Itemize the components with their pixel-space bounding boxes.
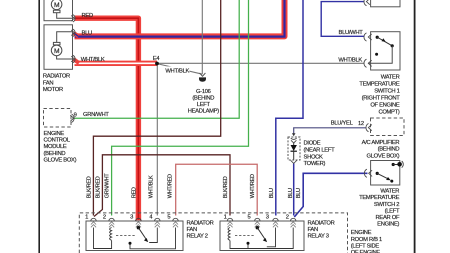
svg-text:WHT/RED: WHT/RED bbox=[250, 174, 256, 198]
water temp switch 2 internals bbox=[376, 172, 379, 175]
svg-text:A/C AMPLIFIER: A/C AMPLIFIER bbox=[362, 140, 400, 146]
A/C amplifier pin 12 connector bbox=[366, 124, 372, 132]
wire WHT/BLK connector stub bbox=[74, 59, 80, 63]
wire BLK/RED B: relay2 pin1 diagonal, up, right, down to relay3 pin1 bbox=[94, 155, 230, 217]
svg-text:5: 5 bbox=[167, 214, 170, 220]
wire WHT/BLK highlight band: motor2 to node E4 bbox=[75, 61, 158, 66]
relay K2 switch pivot (pin3) bbox=[137, 226, 140, 229]
svg-text:MOTOR: MOTOR bbox=[43, 87, 63, 93]
ECM dashed box bbox=[44, 109, 72, 128]
relay K2 coil-switch mechanical link bbox=[116, 234, 136, 236]
motor box connectors bbox=[71, 15, 75, 63]
wire GRN/WHT: ECM pin9 right then up to top edge bbox=[73, 0, 240, 118]
svg-text:RADIATOR: RADIATOR bbox=[308, 221, 335, 227]
switch2 connector bbox=[364, 169, 372, 177]
wire from top edge down to ground G-106 bbox=[201, 0, 203, 74]
wire BLU core bbox=[75, 0, 285, 37]
svg-text:5: 5 bbox=[247, 214, 250, 220]
svg-text:BLK/RED: BLK/RED bbox=[87, 176, 93, 198]
label WHT/BLK ground pointer bbox=[164, 66, 190, 73]
svg-text:3: 3 bbox=[130, 214, 133, 220]
relay K2 internal wire pin5 to contact bbox=[130, 228, 176, 249]
water temp switch 1 internals bbox=[376, 36, 379, 39]
wire WHT/BLK pointer: E4 to ground G-106 bbox=[157, 64, 202, 75]
svg-text:RELAY 2: RELAY 2 bbox=[187, 233, 208, 239]
diode connectors bbox=[292, 133, 296, 136]
switch1 connectors bbox=[364, 33, 372, 68]
relay K2 internal wire pin4 to contact bbox=[149, 228, 157, 243]
svg-text:(BEHIND: (BEHIND bbox=[378, 147, 400, 153]
svg-text:G-106: G-106 bbox=[196, 89, 211, 95]
svg-text:HEADLAMP): HEADLAMP) bbox=[188, 109, 219, 115]
svg-text:TOWER): TOWER) bbox=[304, 161, 326, 167]
svg-text:1: 1 bbox=[85, 214, 88, 220]
svg-text:BLU: BLU bbox=[296, 188, 302, 198]
relay K3 contact dot bbox=[247, 242, 250, 245]
svg-text:WHT/RED: WHT/RED bbox=[168, 174, 174, 198]
wire BLK/RED A: relay2 pin1 up, right, up to top edge bbox=[93, 0, 220, 216]
svg-text:12: 12 bbox=[358, 121, 364, 127]
svg-text:GLOVE BOX): GLOVE BOX) bbox=[367, 153, 400, 159]
relay K2 switch arm bbox=[138, 228, 146, 239]
svg-text:ENGINE: ENGINE bbox=[351, 230, 372, 236]
border right bbox=[414, 0, 416, 253]
svg-text:BLU: BLU bbox=[82, 30, 92, 36]
water temperature switch 2 box bbox=[371, 161, 400, 186]
relay K3 contact stub bbox=[247, 244, 249, 248]
svg-text:GLOVE BOX): GLOVE BOX) bbox=[44, 157, 77, 163]
svg-text:WHT/BLK: WHT/BLK bbox=[149, 175, 155, 198]
wire WHT/RED: relay2 pin5 up, right, down to relay3 pin5 bbox=[176, 164, 258, 215]
wire BLU: water temp switch2 left, down, diagonal to relay3 pin2 bbox=[294, 173, 367, 217]
svg-text:BLU: BLU bbox=[269, 188, 275, 198]
svg-text:2: 2 bbox=[103, 214, 106, 220]
svg-text:FAN: FAN bbox=[43, 80, 53, 86]
motor M1 symbol bbox=[51, 0, 72, 18]
wire GRN/WHT: from top edge down, left, down to relay2 pin2 bbox=[112, 0, 249, 216]
top cut-off component box bbox=[371, 0, 400, 7]
wire RED core bbox=[74, 18, 138, 219]
svg-text:TEMPERATURE: TEMPERATURE bbox=[359, 82, 400, 88]
svg-text:(LEFT: (LEFT bbox=[385, 208, 400, 214]
relay K2 internal wire pin1 to coil return bbox=[94, 228, 112, 249]
svg-text:BLK/RED: BLK/RED bbox=[95, 176, 101, 198]
relay K3 coil-switch mechanical link bbox=[235, 234, 255, 236]
radiator fan motor box 1 (cut at top) bbox=[44, 0, 73, 21]
svg-text:BLU/WHT: BLU/WHT bbox=[339, 30, 364, 36]
svg-text:RADIATOR: RADIATOR bbox=[43, 74, 70, 80]
svg-text:ROOM R/B 1: ROOM R/B 1 bbox=[351, 237, 382, 243]
ECM pin 9 connector bbox=[70, 114, 74, 122]
svg-text:M: M bbox=[54, 2, 60, 9]
svg-text:COMPT): COMPT) bbox=[378, 110, 399, 116]
svg-text:WATER: WATER bbox=[381, 75, 400, 81]
svg-text:MODULE: MODULE bbox=[44, 144, 67, 150]
svg-text:ENGINE): ENGINE) bbox=[377, 222, 399, 228]
svg-text:RADIATOR: RADIATOR bbox=[187, 220, 214, 226]
svg-text:BLK/RED: BLK/RED bbox=[223, 176, 229, 198]
svg-text:BLU/YEL: BLU/YEL bbox=[331, 121, 354, 127]
svg-text:(NEAR LEFT: (NEAR LEFT bbox=[304, 147, 336, 153]
svg-text:RED: RED bbox=[82, 13, 93, 19]
svg-text:TEMPERATURE: TEMPERATURE bbox=[359, 195, 400, 201]
svg-text:RED: RED bbox=[131, 187, 137, 198]
svg-text:9: 9 bbox=[74, 112, 77, 118]
svg-text:3: 3 bbox=[266, 214, 269, 220]
svg-text:1: 1 bbox=[224, 214, 227, 220]
relay K3 coil L1 (pin1) bbox=[228, 228, 230, 241]
relay K2 coil L1 (pin2) bbox=[110, 228, 112, 241]
svg-text:GRN/WHT: GRN/WHT bbox=[105, 173, 111, 199]
motor M2 symbol bbox=[51, 32, 72, 59]
svg-text:SWITCH 2: SWITCH 2 bbox=[374, 202, 399, 208]
relay 2 box bbox=[86, 221, 183, 251]
relay K3 switch pivot (pin5) bbox=[256, 226, 259, 229]
svg-text:WHT/BLK: WHT/BLK bbox=[165, 68, 189, 74]
svg-text:SHOCK: SHOCK bbox=[304, 154, 324, 160]
diode symbol bbox=[293, 143, 295, 145]
svg-text:WATER: WATER bbox=[380, 189, 399, 195]
radiator fan motor box 2 bbox=[44, 25, 73, 70]
svg-text:REAR OF: REAR OF bbox=[376, 215, 400, 221]
svg-text:M: M bbox=[54, 48, 60, 55]
node E4 bbox=[155, 62, 159, 66]
svg-text:2: 2 bbox=[286, 214, 289, 220]
svg-text:BLU: BLU bbox=[288, 188, 294, 198]
svg-text:(BEHIND: (BEHIND bbox=[44, 151, 66, 157]
wire BLU/YEL: diode top right to A/C amplifier pin 12 bbox=[294, 128, 366, 134]
relay K3 internal wire pin3 to contact bbox=[267, 228, 276, 247]
wire BLU highlight band: motor2 right then up off page bbox=[75, 0, 285, 36]
wire BLU: diode bottom down to relay3 pin2 bbox=[293, 163, 295, 215]
relay 3 box bbox=[220, 221, 304, 251]
svg-text:(RIGHT FRONT: (RIGHT FRONT bbox=[362, 96, 401, 102]
rotated wire labels relay2 bbox=[87, 173, 303, 199]
svg-text:DIODE: DIODE bbox=[304, 141, 321, 147]
A/C amplifier dashed box bbox=[371, 118, 405, 136]
wire BLU/WHT: top box down to water temp switch 1 bbox=[321, 2, 364, 37]
svg-text:ENGINE: ENGINE bbox=[44, 131, 65, 137]
wire RED highlight band: motor1 to relay2 pin3 bbox=[74, 18, 138, 219]
relay K2 contact dot (pin5 side) bbox=[129, 242, 132, 245]
svg-text:FAN: FAN bbox=[187, 227, 197, 233]
svg-text:FAN: FAN bbox=[308, 227, 318, 233]
svg-text:(LEFT SIDE: (LEFT SIDE bbox=[351, 244, 380, 250]
relay K3 internal wire coil to pin2 bbox=[230, 228, 293, 249]
diode dashed box bbox=[288, 137, 300, 160]
svg-text:(BEHIND: (BEHIND bbox=[192, 95, 214, 101]
wire BLU: from top edge down, left, down to relay3 pin3 bbox=[276, 0, 303, 216]
wire WHT/BLK: E4 down to relay2 pin4 bbox=[156, 63, 158, 215]
border left bbox=[38, 0, 40, 253]
svg-text:CONTROL: CONTROL bbox=[44, 138, 71, 144]
svg-text:WHT/BLK: WHT/BLK bbox=[81, 57, 105, 63]
svg-text:E4: E4 bbox=[153, 56, 161, 62]
wire BLU connector stub bbox=[74, 33, 79, 37]
top box connector bbox=[364, 0, 370, 6]
svg-text:GRN/WHT: GRN/WHT bbox=[83, 112, 109, 118]
svg-text:WHT/BLK: WHT/BLK bbox=[338, 57, 362, 63]
relay 3 pins bbox=[227, 218, 296, 221]
relay K3 switch arm bbox=[257, 228, 265, 239]
water temperature switch 1 box bbox=[371, 32, 400, 70]
svg-text:OF ENGINE: OF ENGINE bbox=[370, 103, 400, 109]
ground G-106 symbol bbox=[200, 73, 206, 76]
wire RED cap over relay2 pin3 bbox=[136, 215, 141, 221]
relay 2 pins bbox=[91, 218, 178, 221]
svg-text:SWITCH 1: SWITCH 1 bbox=[374, 89, 399, 95]
svg-text:RELAY 3: RELAY 3 bbox=[308, 234, 329, 240]
svg-text:LEFT: LEFT bbox=[197, 102, 211, 108]
wire WHT/BLK: E4 right to water temp switch 1 bbox=[157, 62, 365, 64]
engine room R/B 1 dashed box bbox=[79, 213, 347, 253]
